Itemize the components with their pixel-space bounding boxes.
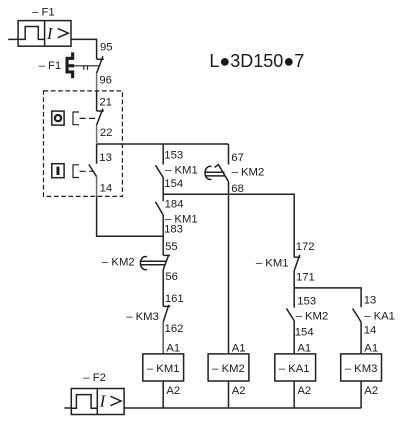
svg-text:161: 161 xyxy=(165,293,184,305)
thermal overload relay F1 trip element xyxy=(66,52,75,78)
circuit breaker F2 xyxy=(71,389,124,415)
NC contact KM3 161-162 xyxy=(163,305,170,322)
svg-text:153: 153 xyxy=(164,149,183,161)
svg-text:– KM3: – KM3 xyxy=(345,363,378,375)
stop button actuator link xyxy=(73,112,99,125)
NO contact start 13-14 xyxy=(89,164,97,176)
svg-text:L●3D150●7: L●3D150●7 xyxy=(209,51,304,71)
mechanical link F1 trip to contact xyxy=(74,66,99,70)
wire 14 to corner B xyxy=(97,196,164,236)
svg-text:21: 21 xyxy=(99,96,112,108)
svg-text:171: 171 xyxy=(296,272,315,284)
wire 162 to KM1 coil xyxy=(162,322,164,354)
svg-text:96: 96 xyxy=(99,74,112,86)
wire node A to 153 xyxy=(162,144,164,165)
coil KM1 xyxy=(143,354,184,381)
NO contact KM1 184-183 xyxy=(155,202,163,215)
wire rung C horizontal xyxy=(163,194,294,257)
coil KM3 xyxy=(341,354,382,381)
start push button head I xyxy=(52,164,64,178)
wire 96 to stop button xyxy=(96,73,98,91)
svg-text:A1: A1 xyxy=(232,343,246,355)
svg-text:68: 68 xyxy=(231,183,244,195)
svg-text:56: 56 xyxy=(165,271,178,283)
wire 171 to rung D xyxy=(293,271,295,288)
wire 22 to node A xyxy=(96,125,98,143)
svg-text:– KM2: – KM2 xyxy=(102,257,135,269)
wire node A to 13 xyxy=(96,144,98,164)
wire left stub to F2 xyxy=(64,407,71,409)
wire KM3 A2 xyxy=(360,381,362,408)
NO contact KM1 153-154 xyxy=(155,165,163,177)
svg-text:A2: A2 xyxy=(364,385,378,397)
svg-text:183: 183 xyxy=(164,224,183,236)
svg-text:153: 153 xyxy=(297,295,316,307)
wire KA1 A2 xyxy=(293,381,295,408)
svg-text:– KA1: – KA1 xyxy=(279,363,310,375)
wire KM2 A2 xyxy=(228,381,230,408)
svg-text:A1: A1 xyxy=(364,343,378,355)
svg-text:A2: A2 xyxy=(166,385,180,397)
svg-text:154: 154 xyxy=(164,178,183,190)
wire F1 to node 95 xyxy=(71,39,97,59)
NC contact F1 95-96 xyxy=(97,56,104,73)
wire rung C to 184 xyxy=(162,194,164,201)
svg-text:172: 172 xyxy=(296,241,315,253)
wire rung A horizontal xyxy=(97,143,229,145)
svg-text:– KM3: – KM3 xyxy=(126,311,159,323)
wire KM1 A2 xyxy=(162,381,164,408)
svg-text:– KM2: – KM2 xyxy=(232,166,265,178)
stop push button head O xyxy=(52,111,64,125)
svg-text:13: 13 xyxy=(364,294,377,306)
NC contact stop 21-22 xyxy=(97,109,104,125)
svg-text:154: 154 xyxy=(295,326,314,338)
wire 14b to KM3 coil xyxy=(360,322,362,354)
control station dashed enclosure xyxy=(44,91,123,196)
wire left stub to F1 xyxy=(8,38,18,40)
circuit breaker F1 xyxy=(18,21,71,47)
wire inside station to node 21 xyxy=(96,91,98,111)
svg-text:67: 67 xyxy=(231,152,244,164)
svg-text:95: 95 xyxy=(100,41,113,53)
svg-text:– F2: – F2 xyxy=(83,372,106,384)
wire 183 through node B to 55 xyxy=(162,215,164,255)
svg-text:A2: A2 xyxy=(232,385,246,397)
svg-text:– F1: – F1 xyxy=(39,60,62,72)
wire 68 to KM2 coil xyxy=(228,182,230,355)
start button actuator link xyxy=(73,165,93,178)
svg-text:– KA1: – KA1 xyxy=(364,311,395,323)
svg-text:184: 184 xyxy=(165,199,184,211)
svg-text:– KM1: – KM1 xyxy=(165,164,198,176)
svg-text:– F1: – F1 xyxy=(32,6,55,18)
svg-text:– KM2: – KM2 xyxy=(212,363,245,375)
svg-text:A1: A1 xyxy=(297,343,311,355)
wire 154 to rung C xyxy=(162,178,164,195)
svg-text:55: 55 xyxy=(165,241,178,253)
svg-text:A1: A1 xyxy=(166,343,180,355)
wire 14 down xyxy=(96,177,98,197)
coil KA1 xyxy=(275,354,316,381)
svg-text:– KM1: – KM1 xyxy=(256,258,289,270)
wire node A corner to 67 xyxy=(228,144,230,165)
svg-text:14: 14 xyxy=(100,182,113,194)
NO contact KM2 153-154 xyxy=(286,308,294,320)
wire 154b to KA1 coil xyxy=(293,321,295,355)
coil KM2 xyxy=(208,354,249,381)
wire rung D horizontal xyxy=(294,288,361,307)
wire bottom rail xyxy=(124,407,361,409)
timed NC contact KM2 55-56 xyxy=(140,255,170,270)
svg-text:22: 22 xyxy=(100,127,113,139)
svg-text:13: 13 xyxy=(99,152,112,164)
svg-text:14: 14 xyxy=(364,325,377,337)
svg-text:A2: A2 xyxy=(297,385,311,397)
svg-text:– KM1: – KM1 xyxy=(147,363,180,375)
wire 56 to 161 xyxy=(162,270,164,307)
svg-text:162: 162 xyxy=(165,323,184,335)
NC contact KM1 172-171 xyxy=(294,255,300,271)
timed NO contact KM2 67-68 xyxy=(205,165,229,182)
svg-text:– KM2: – KM2 xyxy=(296,311,329,323)
NO contact KA1 13-14 xyxy=(353,309,362,323)
wire rung D to 153b xyxy=(293,288,295,308)
